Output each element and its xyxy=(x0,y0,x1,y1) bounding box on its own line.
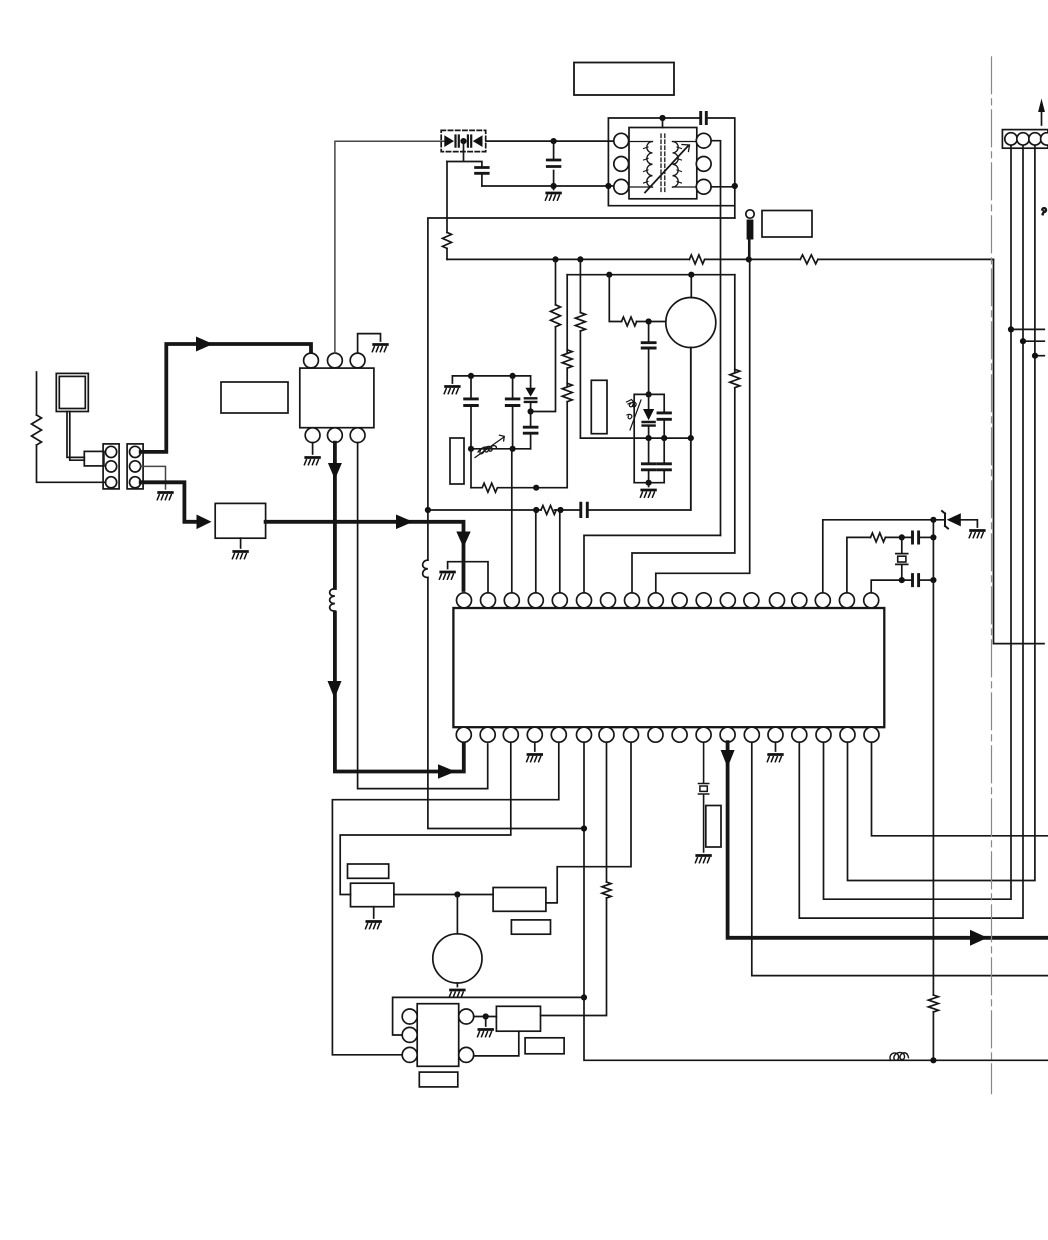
bottom pin14 ground xyxy=(775,742,777,751)
resistor R11 xyxy=(541,506,556,515)
arrow on wire east xyxy=(396,515,413,530)
wire IC201 pin top3 to ground xyxy=(358,334,381,354)
wire between R7 and R8 xyxy=(566,368,568,386)
T1 left winding xyxy=(644,142,653,188)
wire emitter down xyxy=(690,348,692,511)
ground stub of B1 xyxy=(373,907,375,918)
wire supply to base resistor xyxy=(609,275,621,322)
T1 inner body xyxy=(629,128,697,199)
junction nodes on y510 xyxy=(533,507,564,513)
bottom rail of tuned circuit xyxy=(471,448,531,450)
inductor L1 on thick line xyxy=(330,589,335,613)
wire T1 right pin3 to right edge node xyxy=(711,186,735,188)
ground xyxy=(439,572,454,579)
wire R8 up to oscillator supply rail xyxy=(566,275,568,353)
trimmer coil T2 (hand-drawn) xyxy=(475,435,504,457)
bottom pin18 wire off page xyxy=(872,742,1048,836)
mixer/filter box B1 xyxy=(351,883,394,907)
stub wire 3 off page xyxy=(1032,353,1044,359)
top pin16 riser and zener rail xyxy=(823,520,945,593)
wire T1 right pin1 to long vertical xyxy=(711,141,720,536)
ground xyxy=(232,552,247,559)
bottom pin3 wire to mixer box xyxy=(340,742,511,894)
stub wire 1 off page xyxy=(1008,326,1044,332)
IC202 bottom pins xyxy=(456,727,879,742)
bottom pin7 wire with resistor xyxy=(606,742,608,882)
label box (vertical) xyxy=(450,438,464,484)
arrow east on y937.8 xyxy=(970,930,988,946)
node xyxy=(899,577,905,583)
resistor R3 xyxy=(689,255,704,264)
top pin17 riser and crystal rail xyxy=(847,537,871,592)
junction nodes on AFT line xyxy=(552,256,752,262)
node under D3 xyxy=(528,408,534,414)
capacitor C9 (left, below mid rail) xyxy=(642,438,655,483)
wire C2 to AGC line xyxy=(481,175,483,187)
sub-tuner block: label box above mixer xyxy=(348,864,389,878)
node on zener rail xyxy=(930,517,936,523)
T1 core (dashed lines) xyxy=(661,134,665,192)
capacitor C4 xyxy=(465,376,478,449)
bottom rail of varactor loop xyxy=(634,482,664,484)
T1 tuning arrow xyxy=(645,145,690,193)
top pin4 riser xyxy=(535,510,537,593)
wire R5 top to AFT line xyxy=(555,259,557,304)
bottom pin13 wire xyxy=(752,742,1048,975)
resistor R12 on pin8 branch xyxy=(730,369,740,387)
label box below IC203 xyxy=(419,1072,458,1087)
AFT line east end down xyxy=(994,259,1045,643)
ground xyxy=(444,387,459,394)
capacitor C2 xyxy=(476,168,489,174)
wire horizontal to transformer pin3 xyxy=(482,185,614,187)
coupling bracket xyxy=(84,451,104,466)
wire IC201 pin2 top up to varicap line xyxy=(335,141,444,353)
wire varicap line to transformer pin xyxy=(486,140,614,142)
node at base xyxy=(646,318,652,324)
thick signal wire CN2 pin3 down to AGC box xyxy=(141,482,197,522)
junction node xyxy=(551,138,557,144)
arrow on signal wire xyxy=(196,337,213,352)
ground xyxy=(969,531,984,538)
resistor R7 xyxy=(562,383,572,401)
bottom pin4 ground xyxy=(534,742,536,751)
varactor D4 xyxy=(643,394,655,438)
capacitor C12 xyxy=(913,532,919,543)
label box (vertical) right of X2 xyxy=(706,806,721,848)
wire C13 to x933 rail xyxy=(920,579,933,581)
top pin5 riser xyxy=(559,510,561,593)
resistor R6 xyxy=(471,483,537,492)
T1 winding stubs xyxy=(629,142,697,188)
stub wire 2 off page xyxy=(1020,338,1044,344)
wire R12 top to supply rail xyxy=(734,275,736,372)
diode D2 xyxy=(468,135,483,147)
test point TP1 xyxy=(746,210,754,260)
wire CN2 pin2 to ground xyxy=(141,466,166,489)
trimmer scribble on D4 xyxy=(627,400,642,431)
capacitor C11 on y510 xyxy=(581,503,588,516)
connector CN1 xyxy=(103,444,119,489)
bottom pin5 loop wire xyxy=(332,742,558,1055)
wire node down to oscillator Q2 xyxy=(456,895,458,934)
capacitor C8 right of D4 xyxy=(658,412,670,439)
wire B1 to B2 xyxy=(394,894,493,896)
ground xyxy=(527,755,542,762)
top-right connector CN3 xyxy=(1002,130,1048,149)
wire R10 down to mid rail xyxy=(579,331,581,438)
bottom pin15 wire to connector xyxy=(799,146,1023,919)
junction node xyxy=(551,183,557,189)
wire resistor branch from AFT to varactor mid rail xyxy=(579,259,581,312)
node xyxy=(899,534,905,540)
wire C4 leg down to resistor row xyxy=(470,449,472,488)
junction nodes on pin6 wire xyxy=(581,825,587,1000)
bottom pin6 wire xyxy=(584,742,1048,1060)
capacitor C3 on top of T1 xyxy=(701,113,707,124)
thick signal wire CN2 pin1 up to IC201 pin1 xyxy=(141,344,311,452)
junction node xyxy=(533,485,539,491)
wire R2 to AFT line xyxy=(446,248,448,259)
arrow down near IC201 xyxy=(328,463,342,480)
wire collector to supply xyxy=(690,275,692,298)
node on y1060 rail xyxy=(930,1057,936,1063)
varactor D3 xyxy=(525,376,536,412)
emitter return line y510 xyxy=(428,348,691,511)
wire varicap node down and across xyxy=(447,141,482,166)
AGC amp box xyxy=(215,503,265,538)
capacitor C13 xyxy=(913,575,919,586)
resistor R4 xyxy=(800,255,818,264)
node xyxy=(930,577,936,583)
bottom pin16 wire to connector xyxy=(824,146,1012,900)
AFT line across xyxy=(447,258,994,260)
capacitor C7 below base node xyxy=(642,322,655,395)
resistor R5 xyxy=(551,305,561,327)
label box (vertical) left of varactor loop xyxy=(591,380,607,433)
wire big IC pin6 net to IC203 pin2 xyxy=(393,997,584,1035)
resistor R10 xyxy=(575,313,585,331)
label box near TP1 xyxy=(762,211,812,238)
ground below Q2 xyxy=(449,983,464,997)
resonator box B3 xyxy=(496,1006,540,1031)
ground xyxy=(478,1030,493,1037)
coax wire from J1 to connector xyxy=(67,412,84,461)
IC202 top pins xyxy=(457,593,879,608)
resistor R14 xyxy=(928,995,938,1012)
diode D1 xyxy=(444,135,459,147)
label box right of B3 xyxy=(525,1038,564,1054)
transistor Q1 (oscillator) xyxy=(666,298,716,348)
wire IC203 right pin1 east xyxy=(474,1016,497,1018)
IC202 main IF/detector IC xyxy=(453,608,884,727)
top pin9 riser xyxy=(656,240,750,593)
bottom pin12 thick AGC output xyxy=(728,742,1048,938)
label box below B2 xyxy=(511,920,550,934)
arrow up from CN3 xyxy=(1038,99,1045,126)
arrow into AGC box xyxy=(197,515,212,530)
inductor L3 on y1060 rail xyxy=(890,1052,908,1060)
resistor R2 xyxy=(443,232,452,248)
top pin3 riser xyxy=(511,449,513,593)
wire resistor drop from varicap node xyxy=(446,162,448,233)
arrow east into big IC pin1 xyxy=(438,764,456,778)
top pin2 bracket wire to ground xyxy=(448,562,488,593)
long return wire y218 xyxy=(428,218,735,829)
wire R9 to transistor base xyxy=(637,321,666,323)
T1 right winding xyxy=(673,142,682,188)
bottom pin8 wire to discriminator box xyxy=(546,742,631,903)
capacitor C10 (right, below mid rail) xyxy=(658,438,670,483)
arrow down under pin12 xyxy=(721,750,735,768)
connector CN2 xyxy=(127,444,143,489)
ground xyxy=(545,193,560,200)
node on T1 right edge xyxy=(732,183,738,189)
T1 pins (circles) xyxy=(614,133,711,194)
inductor L2 on x428 wire xyxy=(423,560,428,578)
ground stub of AGC box xyxy=(240,538,242,548)
junction node xyxy=(454,891,460,897)
resistor R8 xyxy=(562,350,572,368)
zener diode D5 xyxy=(942,511,977,529)
capacitor C5 xyxy=(506,376,519,449)
varactor loop outer branch xyxy=(634,394,664,482)
junction nodes on supply rail xyxy=(606,272,694,278)
top pin18 riser and lower crystal rail xyxy=(871,580,911,593)
ground xyxy=(695,856,710,863)
wire D3 node east to riser xyxy=(531,327,556,412)
thick signal wire AGC box east then down to big IC pin1 xyxy=(266,522,464,590)
wire R15 down to label box xyxy=(541,898,607,1016)
IC203 (5-pin block) xyxy=(402,1004,474,1067)
wire resistor row east then up (double-resistor branch) xyxy=(536,402,567,488)
ground xyxy=(157,493,172,500)
resistor R9 xyxy=(622,317,637,326)
resistor R13 xyxy=(871,533,886,542)
wire R13 to cap xyxy=(885,536,911,538)
IF transformer T1 outer loop xyxy=(608,118,734,218)
ground xyxy=(640,490,655,497)
wire IC201 pin bottom1 to ground xyxy=(312,443,314,454)
node xyxy=(930,534,936,540)
junction nodes on top rail xyxy=(468,373,516,379)
top pin6 riser to T1 xyxy=(584,535,721,592)
IC201 (8-pin block) xyxy=(300,353,374,443)
wire R14 to y1060 rail xyxy=(932,1012,934,1061)
bottom node of varactor loop xyxy=(646,480,652,487)
top pin8 riser xyxy=(632,388,735,593)
ground xyxy=(304,458,319,465)
ground xyxy=(767,755,782,762)
node on T1 top edge xyxy=(659,115,665,128)
wire R1 to connector pin3 xyxy=(37,445,106,482)
wire IC201 pin3 bottom to big IC pin2 (bottom) xyxy=(358,443,488,789)
page split line (dash-dot) xyxy=(991,57,993,1094)
ground xyxy=(366,922,381,929)
varicap diode pair box (dashed) xyxy=(441,130,486,151)
tuned circuit: top rail wire xyxy=(452,376,530,383)
filter box B2 xyxy=(493,888,546,912)
oscillator circle Q2 xyxy=(433,934,482,983)
arrow down above corner xyxy=(328,681,342,699)
bottom pin11 crystal X2 xyxy=(699,742,709,852)
capacitor C6 below D3 xyxy=(524,412,537,449)
crystal X1 xyxy=(896,537,908,580)
node with ground xyxy=(483,1013,489,1026)
arrow down to IC pin xyxy=(456,532,470,548)
capacitor C1 to ground xyxy=(547,141,560,189)
wire C12 to x933 rail xyxy=(920,536,933,538)
resistor R15 xyxy=(602,882,611,898)
node between varicaps xyxy=(460,138,466,144)
junction node x428 y510 xyxy=(425,507,431,513)
node where AGC line meets T1 left edge xyxy=(605,183,611,189)
junction nodes on bottom rail xyxy=(468,446,516,452)
antenna jack J1 (double-bordered box) xyxy=(56,373,88,411)
label box of IC201 xyxy=(221,382,288,413)
tick mark xyxy=(1042,208,1046,214)
thick signal wire IC201 pin2 bottom down to big IC pin1 (bottom) xyxy=(335,443,464,772)
node top of varactor loop xyxy=(646,391,652,397)
x933 long rail down xyxy=(932,520,934,995)
bottom pin17 wire to connector xyxy=(848,146,1035,881)
antenna stub wire xyxy=(36,372,38,415)
mid rail of varactor loop xyxy=(580,437,690,439)
junction nodes mid rail xyxy=(646,435,694,441)
ground xyxy=(372,345,387,352)
wire B3 bottom to IC203 pin5 xyxy=(474,1031,519,1056)
resistor R1 xyxy=(32,415,42,445)
oscillator supply rail y274.7 xyxy=(567,274,735,276)
title label box xyxy=(574,63,674,96)
